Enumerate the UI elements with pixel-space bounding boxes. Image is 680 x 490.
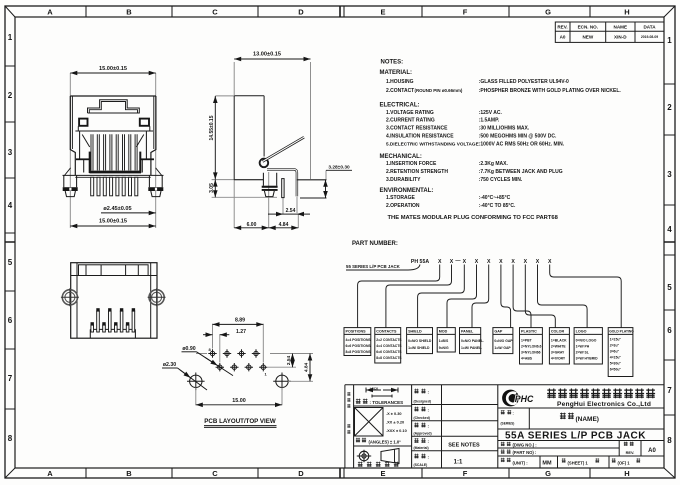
svg-text:(SERIES): (SERIES) — [501, 422, 515, 426]
svg-text:C: C — [212, 469, 218, 478]
third angle projection symbol — [357, 449, 399, 464]
svg-text:COLOR: COLOR — [551, 330, 565, 334]
latch step profile inner — [89, 102, 137, 114]
svg-text:X: X — [438, 259, 442, 265]
svg-text:4=IVORY: 4=IVORY — [551, 357, 566, 361]
svg-text:1=BLACK: 1=BLACK — [551, 339, 567, 343]
svg-text:(ROUND PIN ø0.66mm): (ROUND PIN ø0.66mm) — [415, 88, 463, 93]
svg-text:B: B — [126, 8, 132, 17]
svg-text:8.89: 8.89 — [235, 318, 245, 324]
shield tab left (black) — [79, 119, 87, 126]
svg-text:3=GRAY: 3=GRAY — [551, 351, 565, 355]
dim 2.54 vertical — [292, 354, 294, 368]
svg-text:X: X — [524, 259, 528, 265]
right foot post — [149, 175, 162, 187]
svg-text::750 CYCLES MIN.: :750 CYCLES MIN. — [479, 177, 523, 183]
side view extension lines — [212, 62, 326, 228]
svg-text:4.INSULATION RESISTANCE: 4.INSULATION RESISTANCE — [386, 133, 454, 139]
svg-text:X: X — [487, 259, 491, 265]
svg-text:1=W/ SHIELD: 1=W/ SHIELD — [408, 346, 430, 350]
rev cell — [624, 442, 628, 446]
svg-text:1.STORAGE: 1.STORAGE — [386, 195, 415, 201]
tolerances label — [356, 399, 361, 404]
svg-text:1: 1 — [265, 372, 268, 377]
svg-text:55A SERIES L/P PCB JACK: 55A SERIES L/P PCB JACK — [505, 430, 646, 441]
cavity thick bottom bar — [90, 171, 142, 174]
row ticks right — [664, 84, 675, 415]
svg-text:1.27: 1.27 — [236, 329, 246, 335]
row numbers right — [667, 36, 672, 445]
spring curl loop — [260, 159, 269, 168]
svg-text::1000V AC RMS 50Hz OR 60Hz. MI: :1000V AC RMS 50Hz OR 60Hz. MIN. — [479, 141, 565, 147]
svg-text:2=3u": 2=3u" — [610, 344, 620, 348]
svg-text:6.00: 6.00 — [247, 222, 257, 228]
svg-text:3.DURABILITY: 3.DURABILITY — [386, 177, 421, 183]
svg-text:(Approved): (Approved) — [414, 431, 432, 435]
svg-text:—: — — [455, 258, 461, 264]
company chinese name — [547, 389, 655, 399]
dim 14.55 vertical — [214, 96, 216, 179]
svg-text::-40°C TO 85°C.: :-40°C TO 85°C. — [479, 203, 516, 209]
svg-text:A0: A0 — [560, 35, 566, 40]
top view outer body — [71, 263, 157, 339]
svg-text:8: 8 — [667, 436, 672, 445]
shield tab right (black) — [140, 119, 149, 126]
svg-text:ELECTRICAL:: ELECTRICAL: — [380, 103, 420, 109]
left vertical strip tiny text — [347, 392, 350, 434]
svg-text:X: X — [450, 259, 454, 265]
svg-text:0=N/O PANEL.: 0=N/O PANEL. — [461, 339, 484, 343]
svg-text::500 MEGOHMS MIN @ 500V DC.: :500 MEGOHMS MIN @ 500V DC. — [479, 133, 557, 139]
svg-text:F: F — [463, 8, 468, 17]
inner side walls — [77, 263, 151, 339]
svg-text:3=W/ HYBRID: 3=W/ HYBRID — [576, 357, 598, 361]
title block grid — [345, 385, 664, 468]
svg-text:6=50u": 6=50u" — [610, 368, 622, 372]
svg-text:GOLD PLATING: GOLD PLATING — [609, 329, 634, 333]
svg-text:5.DIELECTRIC WITHSTANDING VOLT: 5.DIELECTRIC WITHSTANDING VOLTAGE — [386, 141, 479, 146]
8 contacts comb — [91, 134, 137, 170]
tab to opening verticals — [78, 126, 150, 131]
svg-text:4=15u": 4=15u" — [610, 356, 622, 360]
svg-text:(NAME): (NAME) — [576, 416, 599, 423]
part number code line — [411, 258, 552, 265]
svg-text:LOGO: LOGO — [576, 330, 587, 334]
svg-text:2: 2 — [8, 91, 13, 100]
svg-text:A0: A0 — [648, 448, 656, 454]
svg-text:.X ± 0.30: .X ± 0.30 — [386, 411, 402, 416]
svg-text:(SCALE): (SCALE) — [414, 463, 428, 467]
svg-text:MECHANICAL:: MECHANICAL: — [380, 154, 422, 160]
dim 13.00 — [234, 58, 310, 60]
svg-text:5=30u": 5=30u" — [610, 362, 622, 366]
svg-text::: : — [428, 408, 430, 413]
front view top dimension 15.00 — [70, 72, 155, 74]
svg-text:1: 1 — [667, 36, 672, 45]
svg-text:2=W/ SL: 2=W/ SL — [576, 351, 589, 355]
svg-text::PHOSPHER BRONZE WITH GOLD PLA: :PHOSPHER BRONZE WITH GOLD PLATING OVER … — [479, 88, 622, 94]
svg-text:XIN-D: XIN-D — [614, 35, 627, 40]
right mounting post symbol — [148, 288, 166, 306]
svg-text:1=15u": 1=15u" — [610, 338, 622, 342]
svg-text:1.VOLTAGE RATING: 1.VOLTAGE RATING — [386, 110, 434, 116]
small holes row lower — [216, 363, 268, 371]
svg-text:1.INSERTION FORCE: 1.INSERTION FORCE — [386, 161, 437, 167]
svg-text:REV.: REV. — [626, 450, 635, 455]
svg-text:(SHEET) 1: (SHEET) 1 — [568, 460, 589, 465]
column ticks top — [86, 6, 590, 17]
svg-text:PART NUMBER:: PART NUMBER: — [352, 241, 398, 247]
svg-text:2=2 CONTACTS: 2=2 CONTACTS — [376, 338, 402, 342]
svg-text:13.00±0.15: 13.00±0.15 — [253, 52, 281, 58]
svg-text:8: 8 — [8, 434, 13, 443]
svg-text:4.84: 4.84 — [304, 363, 310, 373]
svg-text::1.5AMP.: :1.5AMP. — [479, 118, 500, 124]
lower reference line — [300, 197, 327, 199]
svg-text:X: X — [463, 259, 467, 265]
svg-text::125V AC.: :125V AC. — [479, 110, 503, 116]
svg-text:X: X — [548, 259, 552, 265]
unit row — [501, 458, 505, 462]
svg-text:ø2.45±0.05: ø2.45±0.05 — [103, 206, 131, 212]
svg-text:F: F — [463, 469, 468, 478]
svg-text::GLASS FILLED POLYESTER UL94V-: :GLASS FILLED POLYESTER UL94V-0 — [479, 79, 569, 85]
svg-text:(Checked): (Checked) — [414, 416, 430, 420]
svg-text:8=8 POSITIONS: 8=8 POSITIONS — [346, 350, 372, 354]
tolerance x-box — [355, 408, 384, 437]
svg-text:A: A — [47, 469, 53, 478]
svg-text:7: 7 — [8, 374, 13, 383]
svg-text:PH 55A: PH 55A — [411, 259, 429, 265]
svg-text:1=B/S: 1=B/S — [439, 339, 449, 343]
svg-text:.XXX ± 0.10: .XXX ± 0.10 — [386, 428, 407, 433]
scale row — [414, 454, 418, 459]
dim 4.84 vertical — [309, 354, 311, 382]
svg-text:4: 4 — [8, 201, 13, 210]
dim 6.00 / 4.84 — [234, 227, 269, 229]
svg-text::-40°C~+85°C: :-40°C~+85°C — [479, 195, 511, 201]
svg-text:1: 1 — [8, 33, 13, 42]
svg-text:PHC: PHC — [515, 394, 534, 404]
svg-text:1=W/ GAP: 1=W/ GAP — [494, 346, 511, 350]
svg-text:DATA: DATA — [643, 25, 656, 30]
svg-text:NAME: NAME — [614, 25, 628, 30]
svg-text:C: C — [212, 8, 218, 17]
front face band — [71, 275, 157, 277]
svg-text:PCB LAYOUT/TOP VIEW: PCB LAYOUT/TOP VIEW — [204, 418, 276, 425]
bottom flange line — [63, 174, 164, 176]
svg-text:1=PBT: 1=PBT — [521, 339, 533, 343]
small holes row upper — [208, 349, 260, 357]
svg-text:GAP: GAP — [494, 330, 503, 334]
svg-text:SHIELD: SHIELD — [408, 330, 422, 334]
svg-text:15.00±0.15: 15.00±0.15 — [99, 219, 127, 225]
left foot post — [64, 175, 77, 187]
leader lines X to boxes — [358, 265, 622, 328]
svg-text:3=6u": 3=6u" — [610, 350, 620, 354]
column letters top — [47, 8, 629, 17]
svg-text:0=N/O GAP: 0=N/O GAP — [494, 339, 513, 343]
svg-text::30 MILLIOHMS MAX.: :30 MILLIOHMS MAX. — [479, 126, 530, 132]
tall pins with black tips — [96, 308, 135, 332]
column letters bottom — [47, 469, 629, 478]
svg-text:55 SERIES L/P PCB JACK: 55 SERIES L/P PCB JACK — [346, 264, 401, 269]
svg-text:3=NYLON66: 3=NYLON66 — [521, 351, 541, 355]
svg-text:2.OPERATION: 2.OPERATION — [386, 203, 420, 209]
svg-text:NOTES:: NOTES: — [381, 60, 404, 66]
svg-text:4.84: 4.84 — [279, 222, 289, 228]
cavity thick side bars — [89, 152, 91, 173]
svg-text:1:1: 1:1 — [454, 460, 463, 466]
svg-text:6: 6 — [667, 326, 672, 335]
PHC logo — [502, 390, 519, 407]
svg-text:MATERIAL:: MATERIAL: — [380, 70, 413, 76]
svg-text:7: 7 — [667, 386, 672, 395]
third angle view caption — [358, 462, 363, 467]
svg-text:6=6 CONTACTS: 6=6 CONTACTS — [376, 350, 402, 354]
cavity walls — [80, 131, 147, 172]
column ticks bottom — [86, 468, 590, 478]
svg-text:X: X — [536, 259, 540, 265]
row ticks left — [5, 66, 15, 409]
dim 3.28 vertical — [325, 180, 327, 198]
svg-text:PLASTIC: PLASTIC — [521, 330, 537, 334]
svg-text:2019-08-09: 2019-08-09 — [641, 35, 658, 39]
svg-text:POSITIONS: POSITIONS — [346, 330, 367, 334]
part no row — [501, 449, 505, 453]
short pins with black tips — [91, 322, 130, 332]
svg-text:REV.: REV. — [557, 25, 567, 30]
svg-text:X: X — [475, 259, 479, 265]
dim 2.54 — [268, 213, 283, 215]
svg-text:NEW: NEW — [582, 35, 593, 40]
svg-text:0=N/O LOGO: 0=N/O LOGO — [576, 339, 597, 343]
svg-text:G: G — [545, 8, 551, 17]
dim 15.00 — [196, 404, 282, 406]
svg-text::: : — [428, 390, 430, 395]
svg-text:H: H — [624, 8, 629, 17]
svg-text:15.00±0.15: 15.00±0.15 — [99, 66, 127, 72]
svg-text:2.CONTACT: 2.CONTACT — [386, 88, 414, 94]
svg-text:(OF) 1: (OF) 1 — [618, 460, 631, 465]
svg-text:3.CONTACT RESISTANCE: 3.CONTACT RESISTANCE — [386, 126, 448, 132]
svg-text:G: G — [545, 469, 551, 478]
svg-text:6=6 POSITIONS: 6=6 POSITIONS — [346, 344, 372, 348]
svg-text:2.RETENTION STRENGTH: 2.RETENTION STRENGTH — [386, 169, 448, 175]
svg-text:(Designed): (Designed) — [414, 400, 432, 404]
thin solder pin — [282, 179, 284, 198]
designed row — [414, 389, 418, 394]
side foot post — [263, 173, 276, 186]
contact flare diagonals — [82, 135, 144, 148]
svg-text:SEE NOTES: SEE NOTES — [448, 443, 480, 449]
svg-text:2: 2 — [667, 103, 672, 112]
opening top line — [75, 130, 153, 132]
svg-text::7.7Kg BETWEEN JACK AND PLUG: :7.7Kg BETWEEN JACK AND PLUG — [479, 169, 563, 175]
pcb reference line — [297, 179, 327, 181]
svg-text:4=4 CONTACTS: 4=4 CONTACTS — [376, 344, 402, 348]
svg-text:2.CURRENT RATING: 2.CURRENT RATING — [386, 118, 435, 124]
svg-text:(DWG NO.) :: (DWG NO.) : — [513, 442, 537, 447]
svg-text:MOD: MOD — [439, 330, 448, 334]
shield fold horizontal and rear tab — [267, 169, 297, 196]
svg-text:A: A — [47, 8, 53, 17]
svg-text:E: E — [380, 8, 385, 17]
name cell — [560, 413, 566, 419]
svg-text:(PART NO) :: (PART NO) : — [513, 450, 537, 455]
svg-text:15.00: 15.00 — [232, 398, 246, 404]
svg-text:1.HOUSING: 1.HOUSING — [386, 79, 414, 85]
left mounting post symbol — [61, 288, 79, 306]
dim 1.27 — [203, 334, 213, 336]
svg-text:H: H — [624, 469, 629, 478]
latch step profile outer — [88, 100, 140, 113]
svg-text:LOCK: LOCK — [370, 387, 379, 391]
side body outline — [234, 96, 264, 180]
svg-text:3.28±0.30: 3.28±0.30 — [328, 165, 350, 171]
svg-text:9=N/G: 9=N/G — [439, 346, 449, 350]
tolerance mini sketch — [366, 388, 398, 398]
svg-text:PANEL: PANEL — [461, 330, 474, 334]
series cell — [501, 410, 505, 414]
approved row — [414, 423, 418, 428]
latch spring diagonal — [263, 137, 305, 161]
svg-text:6: 6 — [8, 316, 13, 325]
material row — [414, 438, 418, 443]
svg-text:2=WHITE: 2=WHITE — [551, 345, 567, 349]
svg-text:8=8 CONTACTS: 8=8 CONTACTS — [376, 356, 402, 360]
pcb extension lines — [196, 324, 313, 405]
svg-text:2=NYLON6.6: 2=NYLON6.6 — [521, 345, 542, 349]
svg-text:ø0.90: ø0.90 — [182, 346, 195, 352]
svg-text:0=N/O SHIELD: 0=N/O SHIELD — [408, 339, 432, 343]
svg-text:3: 3 — [667, 170, 672, 179]
svg-text:(ANGLES) ± 1.0°: (ANGLES) ± 1.0° — [369, 440, 402, 445]
svg-text:X: X — [511, 259, 515, 265]
svg-text:: TOLERANCES: : TOLERANCES — [370, 400, 404, 405]
front bottom dimension 15.00 — [70, 225, 155, 227]
svg-text:4=4 POSITIONS: 4=4 POSITIONS — [346, 338, 372, 342]
svg-text:X: X — [499, 259, 503, 265]
checked row — [414, 407, 418, 412]
row numbers left — [8, 33, 13, 443]
svg-text:2.54: 2.54 — [286, 356, 292, 366]
cavity mid shelf bars — [76, 158, 90, 160]
8 pin legs — [91, 177, 138, 196]
front view centerlines / extension lines — [70, 73, 155, 228]
svg-text:3: 3 — [8, 148, 13, 157]
svg-text:ENVIRONMENTAL:: ENVIRONMENTAL: — [380, 188, 434, 194]
svg-text:E: E — [380, 469, 385, 478]
svg-text:ø2.30: ø2.30 — [163, 362, 176, 368]
svg-text:2.54: 2.54 — [286, 208, 296, 214]
svg-text:B: B — [126, 469, 132, 478]
svg-text:D: D — [298, 469, 304, 478]
svg-text:MM: MM — [542, 461, 552, 467]
svg-text:5: 5 — [667, 283, 672, 292]
svg-text:3.05: 3.05 — [209, 183, 215, 193]
svg-text:THE MATES MODULAR PLUG CONFORM: THE MATES MODULAR PLUG CONFORMING TO FCC… — [388, 215, 559, 221]
dim 8.89 — [213, 323, 264, 325]
big holes — [187, 373, 291, 391]
svg-text:1=W/ PANEL.: 1=W/ PANEL. — [461, 346, 482, 350]
svg-text:ECN. NO.: ECN. NO. — [578, 25, 598, 30]
svg-text:D: D — [298, 8, 304, 17]
angles tolerance — [356, 438, 360, 443]
dim 3.05 vertical — [214, 180, 216, 198]
svg-text::2.3Kg MAX.: :2.3Kg MAX. — [479, 161, 509, 167]
svg-text:(UNIT) :: (UNIT) : — [513, 460, 528, 465]
svg-text:5: 5 — [8, 258, 13, 267]
svg-text::: : — [428, 455, 430, 460]
svg-text::: : — [428, 424, 430, 429]
svg-text::: : — [513, 411, 514, 416]
svg-text::: : — [428, 439, 430, 444]
svg-text:14.55±0.15: 14.55±0.15 — [209, 115, 215, 140]
svg-text:(Material): (Material) — [414, 446, 429, 450]
svg-text:.XX ± 0.20: .XX ± 0.20 — [386, 420, 404, 425]
svg-text:1=W/ PH: 1=W/ PH — [576, 345, 590, 349]
svg-text:4=ABS: 4=ABS — [521, 357, 533, 361]
svg-text:8: 8 — [209, 347, 212, 352]
dwg no row — [501, 442, 505, 446]
svg-text:PengHui Electronics Co.,Ltd: PengHui Electronics Co.,Ltd — [557, 401, 651, 408]
pin comb base — [90, 329, 135, 338]
svg-text:4: 4 — [667, 225, 672, 234]
svg-text:CONTACTS: CONTACTS — [376, 330, 397, 334]
front body outline — [70, 96, 156, 175]
